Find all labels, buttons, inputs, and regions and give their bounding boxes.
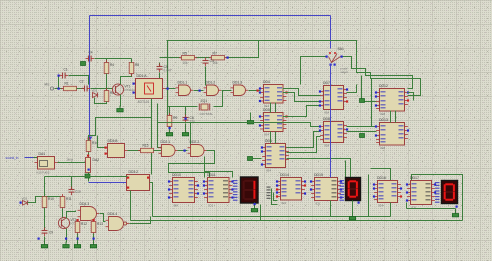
svg-text:DD4: DD4 [263,80,270,84]
wire DD2.2 area down to DD10 [204,157,206,178]
wire R1 to C2 [77,88,85,90]
wire DD4 to DD7 a [283,89,321,96]
junction C1/mic [58,88,60,90]
7-seg display HG1 [241,177,259,203]
diode VD1 [92,89,98,98]
terminal SA1 left [326,56,328,58]
svg-text:ID1: ID1 [316,202,321,206]
svg-text:1kHz: 1kHz [67,158,74,162]
ground under C5 [156,77,162,83]
svg-text:K157UD2: K157UD2 [37,170,50,174]
wire rail to R8 [131,59,133,63]
wire under HG3 [407,208,456,210]
wire DA1 out [58,162,87,164]
capacitor C6 [183,115,196,124]
svg-text:DD1:A: DD1:A [137,74,148,78]
svg-text:DD10: DD10 [172,173,181,177]
wire C9 to ground [44,237,46,243]
wire DD12 to DD13 a [390,111,392,123]
wire DD8 to DD13 a [347,126,377,128]
wire blue DA2 to DD3:2 [89,182,129,184]
svg-text:select: select [341,70,349,74]
resistor R8 [129,60,134,76]
junction feedback [167,88,169,90]
ground under VT3 [63,242,69,248]
7-seg display HG2 [346,178,361,201]
svg-text:IE4: IE4 [265,133,270,137]
svg-text:R7: R7 [213,51,217,55]
svg-text:DD1.3: DD1.3 [233,80,243,84]
pin labels HG1 [233,180,238,201]
wire down to HG2 area [345,161,347,178]
svg-text:R15: R15 [143,144,149,148]
wire blue bus top [90,15,331,17]
svg-text:DD4.3: DD4.3 [80,202,90,206]
junction C9 left [38,238,40,240]
wire DD1:A out to DD1.1 [166,88,176,90]
wire DD2.1 to DD2.2 [178,150,188,152]
capacitor C5 [157,64,172,73]
wire DD4.3 to DD4.4 [100,214,106,222]
logic gate DD1.3 [231,80,249,95]
svg-text:R8: R8 [135,63,139,67]
pin dot DA2 top [87,155,89,157]
resistor R11 [60,194,65,210]
svg-text:R13: R13 [97,222,103,226]
wire branch to C10 [71,177,73,190]
wire supply rail [95,58,132,60]
svg-text:DD13: DD13 [379,118,388,122]
capacitor C4 [86,56,95,62]
diode VD2 [22,197,28,206]
pin dot R14 top [88,138,90,140]
svg-text:R4: R4 [110,63,114,67]
wire DA2 down [88,173,90,182]
wire C5 to R5 [160,57,181,59]
IC DD5 counter [259,108,288,136]
wire blue bus to switch SA1 [330,16,332,49]
svg-text:VD1: VD1 [92,89,98,93]
wire VT1 emitter to ground [120,95,122,107]
power flag DA2 [85,174,90,178]
wire C1 branch [58,76,60,89]
power flag top-left [81,62,86,66]
wire DD16 bottom to bus [390,203,392,217]
transistor VT3 [58,217,79,228]
svg-text:DD2.1: DD2.1 [161,140,171,144]
wire DD7 out up [347,85,357,93]
wire branch to DD3:B [98,136,105,148]
wire DD3:B out to R15 [128,150,141,152]
junction HG2 dp [358,202,360,204]
wire DD4.4 out to bus [130,217,151,224]
pin dot DD3:B in1 [105,147,107,149]
wire to DD16 top [371,169,391,181]
7-seg display HG3 [442,181,458,204]
wire DD12 to DD13 b [395,111,397,123]
resistor R7 [209,51,227,65]
wire VT3 collector to DD4.3 [67,211,76,219]
wire to R9 [169,107,171,116]
wire R7 to top bus riser [226,41,259,58]
logic gate DD1.2 [204,80,222,95]
svg-text:DD11: DD11 [207,173,216,177]
svg-text:DD3:B: DD3:B [108,139,119,143]
wire R13 to ground [93,234,95,243]
svg-text:R10: R10 [48,197,54,201]
wire VD1 to R6 bottom [95,98,107,104]
svg-text:sound_in: sound_in [6,156,19,160]
IC DD17 decoder [406,176,436,209]
logic gate DD1.1 [176,80,194,95]
IC DD8 counter [319,117,348,147]
arrow end of blue bus [88,137,93,141]
wire DD15 down to bus [330,201,332,217]
terminal SA1 bottom [330,64,332,66]
svg-text:Mic: Mic [45,83,50,87]
svg-text:ID1: ID1 [209,204,214,208]
ground under R13 [90,242,96,248]
svg-text:IE4: IE4 [267,169,272,173]
terminal VD2 left [20,202,22,204]
wire R14 top loop [89,118,152,141]
wire R9 to ground [169,127,171,131]
power flag DD6 [248,157,253,161]
svg-text:SA1: SA1 [338,47,345,51]
svg-text:C2: C2 [80,80,84,84]
svg-text:DD14: DD14 [280,173,289,177]
IC DD11 decoder [203,173,234,207]
svg-text:DD12: DD12 [379,84,388,88]
junction VT3 emitter [65,238,67,240]
pin dot DD3:2 c [147,177,149,179]
logic gate DD4.3 [78,202,100,221]
wire staircase to DD12 input [362,76,377,102]
svg-text:C10: C10 [75,190,81,194]
wire down to R10 node [44,177,46,197]
ground under C9 [41,242,47,248]
wire bus2 riser to DD17 top [412,175,463,221]
switch SA1 [329,47,349,74]
svg-text:ZQ1: ZQ1 [201,99,208,103]
wire VD2 to R10 [28,197,45,203]
wire DD1.1 to DD1.2 [194,90,204,92]
IC DD12 [375,84,409,116]
svg-text:IE4: IE4 [325,144,330,148]
svg-text:CRYSTAL: CRYSTAL [200,112,214,116]
wire C2 to VT1 base [91,88,113,90]
wire to ground HG3 [455,209,457,212]
ground under R12 [74,242,80,248]
svg-text:IE8: IE8 [381,146,386,150]
IC DD7 counter [319,81,348,114]
resistor R15 [138,148,156,152]
wire DD4 to DD7 b [283,93,321,102]
IC DD14 counter [276,173,306,205]
junction HG1 common [254,203,256,205]
svg-text:DD4.4: DD4.4 [108,212,118,216]
wire HG1 common down [254,203,256,207]
wire flag to DD6 [253,158,262,160]
pin dot DD1:A in2 [133,92,135,94]
wire vertical feedback node [167,41,169,116]
junction gates 1-2 [199,90,201,92]
pin labels HG3 [435,182,440,203]
wire DD4 to DD5 b [275,103,277,113]
wire bottom bus 2 [131,220,463,222]
logic gate DD2.2 [188,140,207,157]
wire long mid-left horizontal [45,176,128,178]
junction C1 left [58,75,60,77]
wire SA1 left feed [301,57,327,85]
svg-text:DA1: DA1 [39,152,46,156]
svg-text:DD16: DD16 [377,176,386,180]
wire C5 top [159,63,161,67]
wire DD1.3 to DD4 counter [249,90,261,92]
ground under HG1 [251,206,257,212]
pin labels HG2 [340,180,345,201]
wire DD2.2 down to DD11 [169,151,215,178]
wire C3 to gate DD1.2 [205,67,207,86]
wire top of DD10/DD11 [205,172,233,178]
wire DD14 left loop b [274,193,278,201]
wire DD5 to DD7 c [283,106,321,117]
wire rail to R4 [106,59,108,63]
resistor R12 [75,219,80,235]
svg-text:DD17: DD17 [410,176,419,180]
wire blue bus left vertical [89,16,91,138]
wire DD6 to DD8 b [287,132,321,148]
svg-text:R11: R11 [66,197,72,201]
resistor R4 [104,60,109,76]
wire DD6 out down to display row [287,159,351,178]
svg-text:IE4: IE4 [174,204,179,208]
wire DD1.2 to DD1.3 [222,90,232,92]
IC DD15 decoder [310,173,342,205]
svg-text:C4: C4 [89,51,93,55]
crystal ZQ1 [199,99,213,116]
wire DD3:2 out down to bus [150,183,153,217]
wire DD12 out right [408,93,414,101]
wire down to DD3:2 [151,99,153,175]
IC DD16 counter [373,176,402,207]
wire HG1 area to bus2 [260,205,262,221]
svg-text:DD7: DD7 [323,81,330,85]
wire DD16 to under-wire [406,203,408,209]
junction R12 bottom [77,238,79,240]
IC DD10 counter [168,173,199,207]
IC DD3:2 [127,170,150,191]
ground under HG2 [349,214,355,220]
wire C5 to ground [159,73,161,78]
wire R12 to ground [77,234,79,243]
terminal SA1 right [341,56,343,58]
junction R9 bottom [169,127,171,129]
svg-text:IE4: IE4 [379,204,384,208]
svg-text:DD5: DD5 [263,108,270,112]
ground under HG3 [452,211,458,217]
wire down to DD2.1 input [158,104,162,148]
IC DD6 counter [261,139,289,172]
pin labels DD14 left [267,187,271,199]
wire blue input [25,157,34,159]
wire riser mid [368,175,370,217]
wire bus2 to DD3:2 [130,191,132,221]
wire DD14 left loop a [272,189,278,205]
resistor R9 [167,113,172,129]
pin dot counter clock [257,90,259,92]
junction R7 right [227,57,229,59]
svg-text:DD1.2: DD1.2 [206,80,216,84]
svg-text:10k: 10k [183,61,189,65]
svg-text:0.047: 0.047 [164,69,172,73]
svg-text:R9: R9 [173,116,177,120]
wire R15 to DD2.1 [154,150,162,152]
IC DD4 counter [259,80,288,108]
terminal SA1 bottom2 [334,64,336,66]
wire C6 to ground [185,124,187,131]
wire DD8 to DD13 b [347,131,377,133]
svg-text:IE8: IE8 [381,112,386,116]
svg-text:R1: R1 [65,82,69,86]
resistor R1 [61,86,79,90]
wire C1 to node [69,76,89,85]
resistor R14 [86,138,91,154]
wire long row to DD8 a [158,123,321,127]
wire HG2 common down [352,201,354,215]
resistor R6 [104,88,109,104]
pin dot DD1:A in1 [133,83,135,85]
pin dot DD3:B in2 [105,153,107,155]
IC DD3:B [105,139,128,158]
pin dot DD3:2 a [127,177,129,179]
junction DD2 gates [184,150,186,152]
wire to C6 [185,107,187,117]
wire VT3 emitter down [66,229,68,243]
wire bottom bus 1 [153,216,391,218]
wire staircase to DD13 input [372,79,377,127]
wire DD4 to DD5 a [270,103,272,113]
svg-text:DD3:2: DD3:2 [129,170,139,174]
svg-text:C9: C9 [49,231,53,235]
capacitor C3 [203,58,214,67]
wire DD6 to DD8 c [287,137,321,153]
wire R5 to R7 [196,57,211,59]
power flag DD12 [360,99,365,103]
optocoupler DD1:A [133,74,166,104]
IC DD13 [375,118,409,150]
resistor R13 [91,219,96,235]
transistor VT1 [112,84,135,95]
capacitor C10 [69,187,75,196]
ground under VT1 [117,106,123,112]
svg-text:IE4: IE4 [325,111,330,115]
junction C6 top [185,118,187,120]
IC DA2 [86,158,100,173]
svg-text:DD2.2: DD2.2 [190,140,200,144]
wire blue bus vertical over DD7 DD8 [330,65,332,178]
logic gate DD2.1 [159,140,178,157]
microphone input MK1 [45,83,54,91]
wire R11 to VT3 base [62,209,64,218]
svg-text:C1: C1 [64,68,68,72]
svg-text:C3: C3 [210,59,214,63]
wire SA1 to DD12 clock [342,57,413,89]
svg-text:VD2: VD2 [22,197,28,201]
ground under C6 [182,130,188,136]
wire ground mid stub [250,113,252,119]
capacitor C2 [82,86,91,92]
ground mid [247,118,253,124]
svg-text:DA2: DA2 [93,158,100,162]
wire DD5 to DD6 b [275,132,277,144]
logic gate DD4.4 [106,212,130,231]
wire R4 to R6 [106,74,108,91]
svg-text:DD15: DD15 [314,173,323,177]
wire mic to R1 [55,88,63,90]
wire R10-R11 top [45,196,63,198]
junction R13 bottom [93,238,95,240]
wire input to DA1 [34,157,38,159]
power flag DD13 [360,134,365,138]
svg-text:AOT101: AOT101 [138,100,150,104]
pin dot R12 top [77,219,79,221]
junction DA2 [88,169,90,171]
svg-text:R5: R5 [183,51,187,55]
pin dot R13 top [93,219,95,221]
svg-text:DD8: DD8 [323,117,330,121]
wire to crystal ZQ1 left [168,106,198,108]
pin dot DD3:2 b [127,187,129,189]
svg-text:R12: R12 [81,222,87,226]
wire crystal ZQ1 right to DD1.3 [214,91,223,107]
svg-text:DD1.1: DD1.1 [178,80,188,84]
svg-text:IE4: IE4 [282,201,287,205]
capacitor C9 [42,228,48,237]
ground under R9 [166,130,172,136]
wire VT1 collector to R8 [121,74,132,85]
wire down to DD2.2 [190,123,192,148]
IC DA1 amplifier [35,152,58,174]
wire DD5 to DD6 a [270,132,272,144]
resistor R5 [179,51,197,65]
wire top feedback bus to DD12 [167,41,421,96]
capacitor C1 [60,73,69,79]
resistor R10 [42,194,47,210]
junction HG3 dp [456,206,458,208]
wire R14 to DA2 [88,153,90,158]
wire R10 to C9 [44,208,46,231]
